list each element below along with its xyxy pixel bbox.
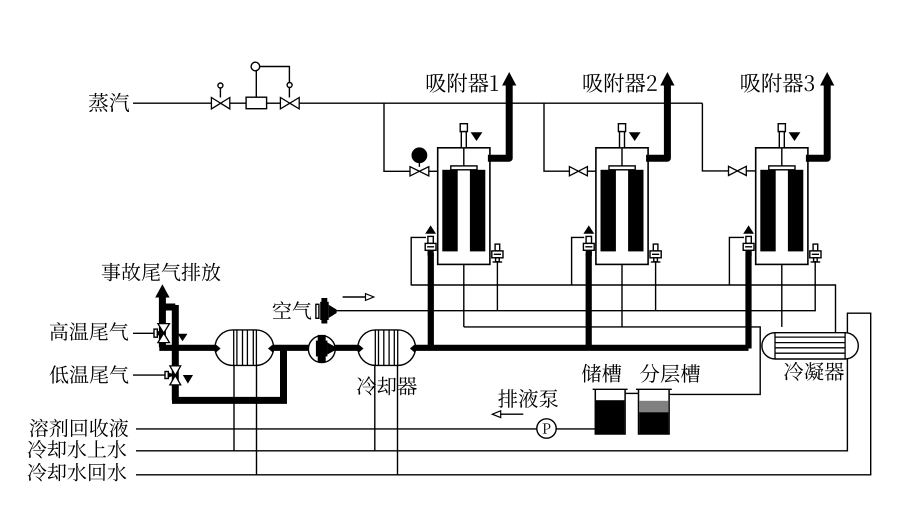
marker triangle 高温 [178,334,188,341]
wire 高温尾气 inlet [133,332,155,334]
junction nub cooler1 inlet [212,345,221,352]
arrow head A1 exhaust [502,72,516,86]
adsorber A1 carbon bed right [470,170,485,252]
arrow head A2 exhaust [660,72,674,86]
label 吸附器3 [741,73,814,93]
wire vessel 3 bottom drop [781,264,783,327]
marker triangle at A1 top [471,132,483,141]
wire 排液泵 arrow [492,411,523,418]
label 冷却器 [357,376,417,395]
wire steam branch to adsorber 3 [702,103,728,171]
label 冷凝器 [784,362,844,381]
wire valve A1 outlet to vessel [429,170,439,172]
marker triangle at A2 left fitting [583,225,594,233]
valve A1 left fitting outlet [428,250,434,255]
wire 冷却水回水 line [136,313,871,475]
valve A3 left fitting stem [746,236,751,243]
adsorber A1 bed support [451,166,477,170]
valve A2 right fitting body [650,251,661,258]
adsorber A2 top nozzle [618,124,625,148]
tank 储槽 top flange [593,388,628,390]
valve 高温尾气 inlet connector [154,329,164,337]
wire vessel 1 bottom drop [463,264,465,327]
wire drain header L3 to 分层槽 [464,327,760,395]
tank 储槽 walls [595,389,625,434]
wire valve A2 outlet to vessel [587,170,596,172]
valve A1 actuator [412,148,426,167]
adsorber A3 carbon bed right [788,170,803,252]
pipe riser to adsorber 2 [586,253,592,348]
adsorber A2 bed support [609,166,635,170]
adsorber A3 carbon bed left [760,170,775,252]
valve A3 left fitting outlet [746,250,752,255]
wire 低温尾气 inlet [133,374,166,376]
air inlet bracket [316,304,319,318]
valve A2 right fitting stem [653,244,658,251]
label 吸附器1 [427,73,498,93]
heat exchanger shell (first) [215,330,274,366]
wire air flow arrow [343,294,374,301]
marker triangle at A1 left fitting [425,225,436,233]
wire steam header from 蒸汽 [133,102,212,104]
adsorber vessel A3 shell [756,148,808,265]
valve A3 left fitting body [743,243,754,250]
valve A1 right fitting body [492,251,503,258]
wire L2 riser to adsorber 1 right fitting [496,262,498,311]
blower internals [316,335,335,362]
junction nub cooler2 inlet [355,345,364,352]
adsorber A3 dip tube [781,148,783,166]
label 空气 [273,301,312,319]
blower circle [308,336,335,363]
tank 分层槽 walls [639,389,670,434]
adsorber A2 carbon bed right [628,170,643,252]
adsorber vessel A2 shell [596,148,648,265]
adsorber A2 dip tube [621,148,623,166]
marker triangle at A2 top [629,132,641,141]
valve adsorber 2 steam inlet [569,167,587,176]
pipe A3 exhaust elbow [806,86,827,159]
valve adsorber 1 steam inlet [410,167,429,176]
wire cooler1 tube to return [256,348,258,475]
junction nub cooler1 outlet [268,345,277,352]
valve A2 right fitting outlet [651,258,661,262]
valve A3 right fitting body [810,251,821,258]
condenser tube lines [775,333,845,359]
valve 低温尾气 inlet connector [165,372,175,379]
valve steam V2 [280,98,299,109]
pipe drop leg through 低温 valve [172,305,179,400]
wire L1 riser to adsorber 3 fitting [729,237,744,285]
valve 高温尾气 (vertical) [158,324,170,343]
valve A1 right fitting outlet [493,258,503,262]
pipe A1 exhaust elbow [488,86,509,159]
wire pilot to valve V2 [260,67,290,98]
label 低温尾气 [50,365,129,383]
wire cooler2 tube to return [397,348,399,475]
valve A1 left fitting body [425,243,436,250]
adsorber A1 dip tube [463,148,465,166]
marker triangle at A3 left fitting [743,225,754,233]
valve A1 right fitting stem [495,244,500,251]
valve steam V1 [211,98,229,109]
valve V1 stem [219,88,221,98]
adsorber A3 bed support [769,166,795,170]
valve A2 left fitting stem [586,236,591,243]
tank 储槽 liquid [596,400,625,433]
wire steam header main run [299,102,702,104]
valve A2 left fitting body [583,243,594,250]
valve A3 right fitting stem [813,244,818,251]
pilot circle [251,62,260,71]
adsorber A1 carbon bed left [442,170,457,252]
wire bypass header L1 to condenser [411,285,835,334]
wire steam header segment box to valve [267,102,281,104]
wire 溶剂回收液 line pump to tank [556,428,595,430]
label 储槽 [582,364,621,383]
junction nub cooler2 outlet [410,345,419,352]
valve V2 positioner circle [287,83,292,88]
pipe A2 exhaust elbow [646,86,667,159]
wire L2 riser to adsorber 2 right fitting [655,262,657,311]
wire steam branch to adsorber 2 [544,103,569,171]
label 吸附器2 [584,73,657,93]
wire L1 riser to adsorber 2 fitting [572,237,585,285]
wire air header L2 [336,262,815,311]
adsorber A1 top nozzle [460,124,467,148]
valve V1 handwheel [218,83,223,88]
marker triangle at A3 top [789,132,801,141]
label 冷却水回水 [28,463,127,482]
marker triangle 低温 [183,375,193,384]
tank 分层槽 upper layer [639,401,668,412]
pipe riser to adsorber 1 [428,253,434,348]
valve A1 left fitting stem [428,236,433,243]
label 蒸汽 [89,93,129,112]
arrow head A3 exhaust [820,72,834,86]
label 排液泵 [498,389,558,408]
wire L1 riser to adsorber 1 fitting [411,237,426,285]
tank 分层槽 lower layer [639,412,668,433]
pipe main gas header [159,345,748,351]
valve A3 right fitting outlet [811,258,821,262]
wire cooler2 tube to supply [374,348,376,451]
pipe riser to adsorber 3 [745,253,751,349]
wire valve A3 outlet to vessel [746,170,756,172]
adsorber A2 carbon bed left [601,170,616,252]
label 冷却水上水 [28,440,127,459]
label 溶剂回收液 [30,419,129,438]
heat exchanger 冷却器 shell [358,330,416,366]
valve A2 left fitting outlet [586,250,592,255]
adsorber A3 top nozzle [778,124,785,148]
condenser 冷凝器 shell [762,333,858,359]
air inlet valve (black) [320,298,336,324]
adsorber vessel A1 shell [438,148,490,265]
valve 低温尾气 (vertical) [170,366,181,385]
label P [543,423,551,433]
wire steam header segment valve to box [230,102,246,104]
wire cooler1 tube to supply [233,348,235,451]
controller box [246,97,267,109]
label 事故尾气排放 [102,263,221,281]
wire steam branch to adsorber 1 [384,103,410,171]
label 高温尾气 [50,322,128,341]
valve adsorber 3 steam inlet [729,166,747,175]
wire 冷却水上水 line [136,358,847,451]
pipe bottom U run [172,345,284,400]
pipe vent elbow to drop leg [162,304,175,311]
label 分层槽 [640,364,700,383]
arrow head 事故尾气排放 [155,284,169,297]
pipe vent stack 事故尾气排放 [159,297,166,347]
wire 溶剂回收液 line left [136,428,537,430]
pump P circle [537,419,556,438]
tank 分层槽 top flange [636,388,672,390]
wire controller to pilot [255,71,257,98]
wire 储槽 to 分层槽 [625,392,638,394]
wire vessel 2 bottom drop [621,264,623,327]
